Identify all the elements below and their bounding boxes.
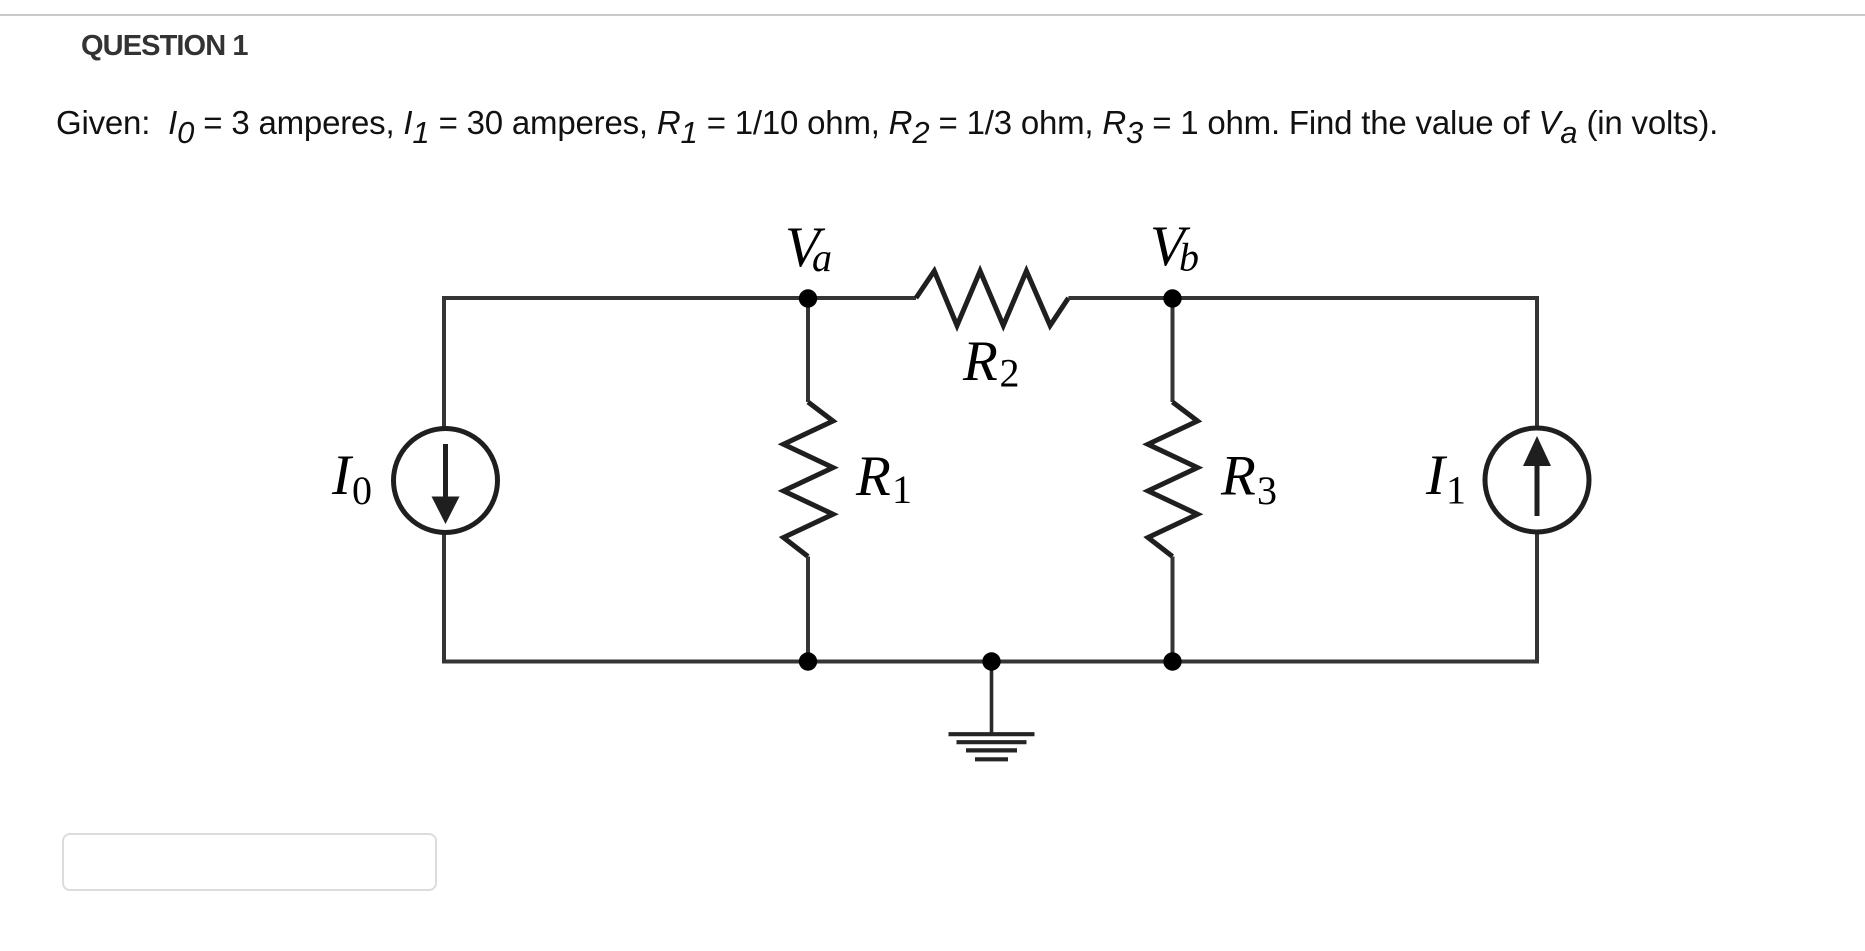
problem statement: [56, 104, 1718, 142]
svg-text:0: 0: [352, 468, 372, 513]
top divider line: [0, 14, 1865, 16]
resistor R3 top lead: [1171, 298, 1175, 402]
wire right vertical upper (to I1 top): [1535, 298, 1539, 430]
wire left vertical lower (I0 bottom to corner): [442, 531, 446, 662]
heading QUESTION 1: [81, 30, 248, 63]
svg-text:2: 2: [1000, 351, 1020, 396]
current source I0 arrow (downward): [432, 444, 460, 524]
current source I1 arrow (upward): [1523, 436, 1551, 516]
svg-text:R: R: [855, 445, 891, 508]
wire right vertical lower (I1 bottom to corner): [1535, 530, 1539, 662]
resistor R2: [916, 271, 1068, 326]
node dot Va: [799, 289, 817, 307]
wire node Vb to top-right corner: [1173, 296, 1540, 300]
resistor R1: [784, 402, 834, 557]
svg-text:1: 1: [1446, 468, 1466, 513]
wire R2 right lead to node Vb: [1068, 296, 1172, 300]
resistor R1 top lead: [806, 298, 810, 402]
wire bottom horizontal: [442, 660, 1539, 664]
svg-text:1: 1: [892, 467, 912, 512]
ground bars: [949, 734, 1035, 759]
svg-text:I: I: [331, 444, 354, 507]
resistor R1 bottom lead: [806, 557, 810, 662]
node dot bottom R1: [799, 652, 817, 670]
current source I1 circle: [1485, 428, 1589, 532]
resistor R3 bottom lead: [1171, 557, 1175, 662]
svg-text:I: I: [1425, 444, 1448, 507]
ground stem: [990, 662, 994, 734]
svg-text:R: R: [962, 330, 998, 393]
current source I0 circle: [394, 429, 498, 533]
svg-text:b: b: [1179, 235, 1199, 280]
svg-text:a: a: [812, 235, 832, 280]
node dot Vb: [1163, 289, 1181, 307]
answer input box: [62, 833, 437, 891]
wire left vertical upper (top corner to I0): [442, 298, 446, 430]
svg-text:R: R: [1220, 445, 1256, 508]
node dot bottom ground: [982, 652, 1000, 670]
wire top-left horizontal (left corner to node Va): [442, 296, 808, 300]
svg-text:3: 3: [1257, 468, 1277, 513]
wire node Va to R2 left lead: [808, 296, 916, 300]
resistor R3: [1148, 402, 1198, 557]
node dot bottom R3: [1163, 652, 1181, 670]
